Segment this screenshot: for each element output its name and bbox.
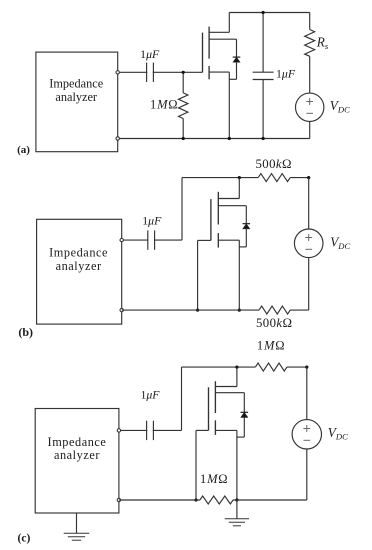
svg-text:1μF: 1μF <box>140 388 160 402</box>
svg-text:500kΩ: 500kΩ <box>256 316 292 330</box>
svg-text:analyzer: analyzer <box>55 90 97 104</box>
svg-text:(a): (a) <box>17 144 30 156</box>
svg-text:1μF: 1μF <box>276 66 296 80</box>
svg-text:Impedance: Impedance <box>48 435 107 449</box>
svg-text:Impedance: Impedance <box>49 246 108 260</box>
svg-text:Impedance: Impedance <box>49 77 103 91</box>
svg-text:(c): (c) <box>18 532 31 544</box>
svg-text:1μF: 1μF <box>140 47 160 61</box>
svg-text:(b): (b) <box>18 325 33 339</box>
svg-text:500kΩ: 500kΩ <box>255 157 291 171</box>
svg-text:1MΩ: 1MΩ <box>257 339 285 353</box>
svg-text:analyzer: analyzer <box>54 448 100 462</box>
svg-text:analyzer: analyzer <box>56 259 102 273</box>
svg-text:1MΩ: 1MΩ <box>200 472 228 486</box>
svg-text:1MΩ: 1MΩ <box>150 97 178 111</box>
svg-text:1μF: 1μF <box>142 214 162 228</box>
